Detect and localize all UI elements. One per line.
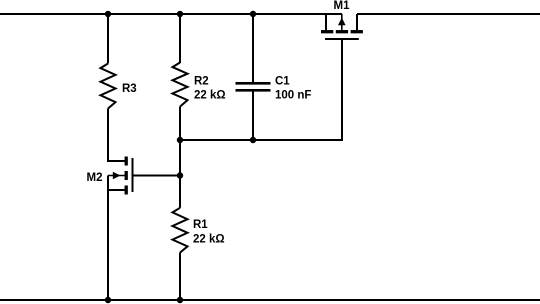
svg-text:22 kΩ: 22 kΩ	[194, 90, 226, 102]
node bottom M2 junction	[105, 297, 111, 303]
wire R3 to M2 drain	[108, 109, 125, 162]
svg-text:M2: M2	[87, 172, 103, 184]
wire R1 to bottom rail	[179, 253, 181, 300]
node mid R2 junction	[177, 137, 183, 143]
node M2 gate junction	[177, 172, 183, 178]
svg-text:100 nF: 100 nF	[275, 90, 311, 102]
node mid C1 junction	[250, 137, 256, 143]
wire bottom rail	[0, 299, 540, 301]
node top C1 junction	[250, 11, 256, 17]
svg-text:R1: R1	[193, 219, 208, 231]
wire M2 source to bottom rail	[107, 190, 109, 300]
node top R3 junction	[105, 11, 111, 17]
wire top rail right	[357, 13, 540, 15]
svg-text:R2: R2	[194, 76, 209, 88]
wire R2 branch top	[179, 14, 181, 63]
wire M2 gate to node	[133, 175, 181, 177]
transistor M2	[108, 157, 133, 195]
wire top rail left	[0, 13, 342, 15]
wire mid node to M1 gate	[180, 39, 342, 140]
resistor R1	[173, 208, 188, 253]
node top R2 junction	[177, 11, 183, 17]
resistor R2	[173, 63, 188, 107]
capacitor C1	[236, 83, 271, 140]
wire R2 to R1	[179, 107, 181, 208]
wire C1 branch top	[252, 14, 254, 83]
node bottom R1 junction	[177, 297, 183, 303]
transistor M1	[321, 14, 363, 39]
resistor R3	[101, 64, 116, 109]
svg-text:22 kΩ: 22 kΩ	[193, 234, 225, 246]
svg-text:M1: M1	[334, 0, 351, 12]
wire R3 branch top	[107, 14, 109, 64]
svg-text:C1: C1	[275, 76, 290, 88]
svg-text:R3: R3	[122, 83, 137, 95]
